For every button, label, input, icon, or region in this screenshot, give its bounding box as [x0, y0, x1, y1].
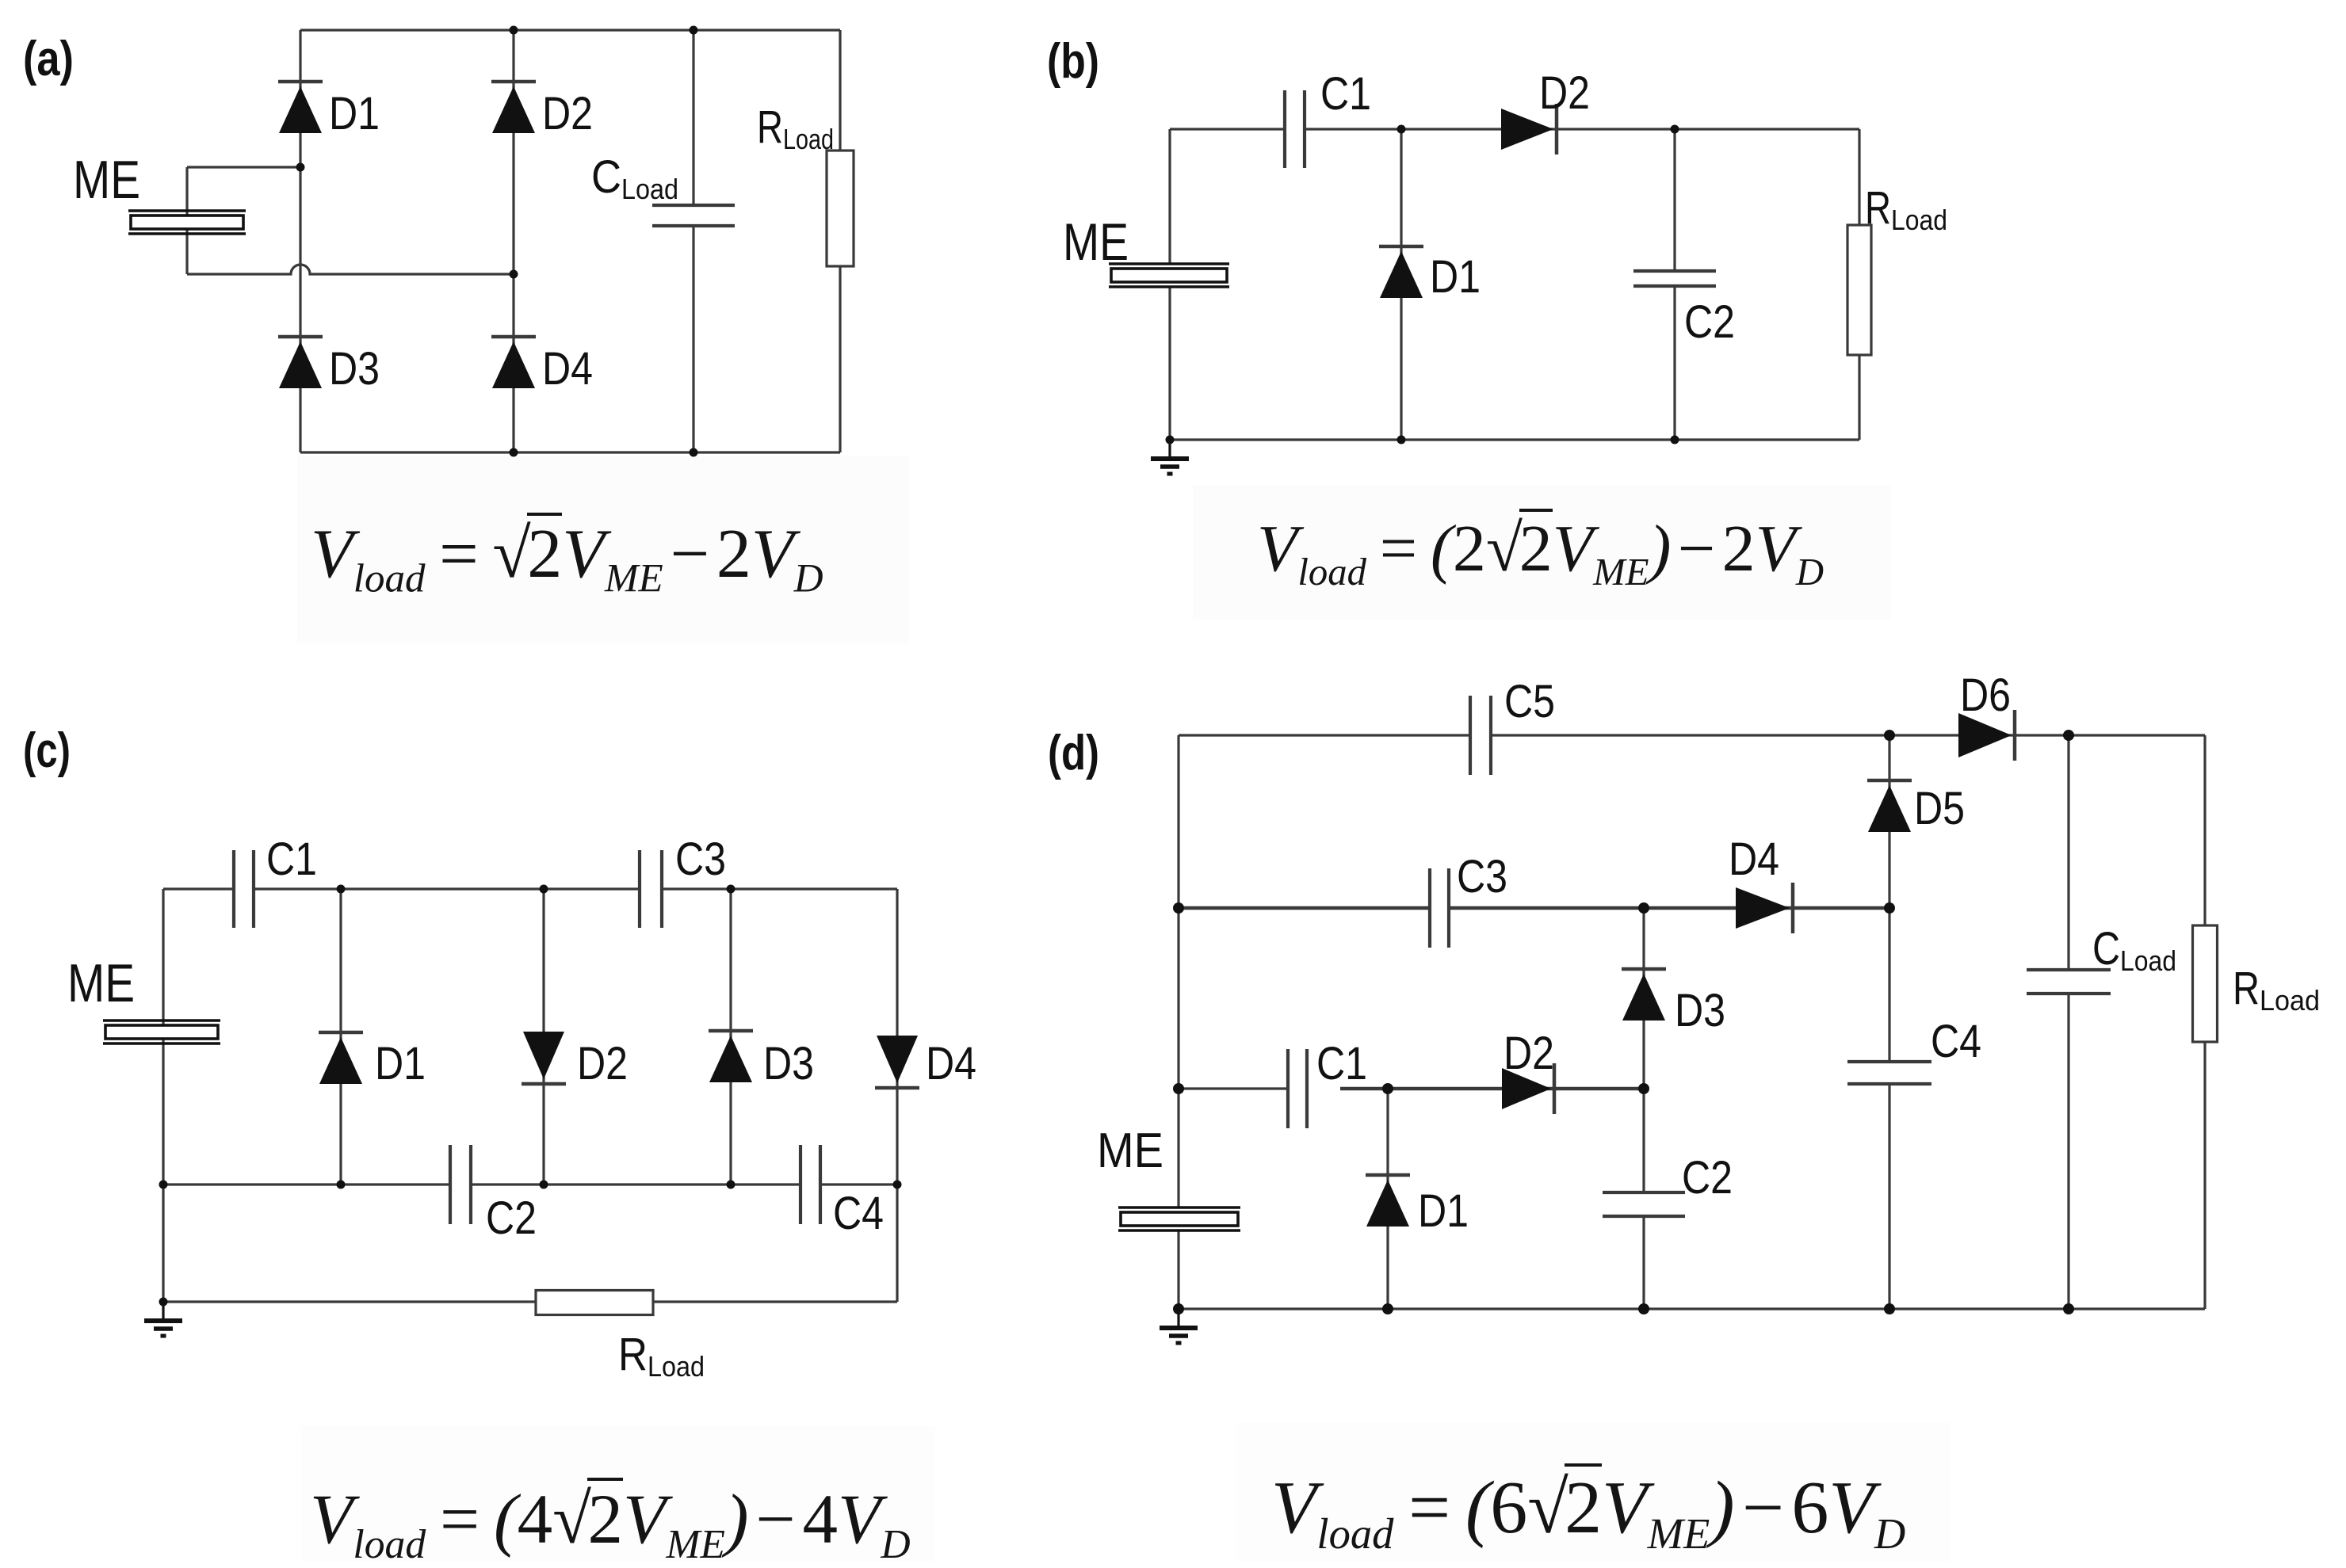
junction dot (1487,1146) (d) — [1173, 902, 1184, 914]
transducer ME (c) — [103, 1021, 220, 1043]
formula panel (c): V_load = (4 sqrt(2) V_ME) - 4 V_D — [310, 1479, 911, 1568]
panel label (b) — [1047, 34, 1099, 89]
junction dot (379,211) (a) — [296, 163, 305, 172]
svg-text:ME: ME — [1063, 212, 1129, 271]
junction dot (648,346) (a) — [510, 270, 518, 279]
svg-text:D3: D3 — [763, 1038, 814, 1089]
svg-text:D2: D2 — [1504, 1028, 1554, 1079]
junction dot (2384,1652) (d) — [1884, 1303, 1895, 1314]
junction dot (2384,1146) (d) — [1884, 902, 1895, 914]
wire C_Load branch bottom (d) — [2067, 994, 2069, 1309]
label R_Load (a) — [757, 101, 834, 155]
wire R_Load branch top (d) — [2203, 735, 2206, 925]
wire mid rail seg3 (c) — [820, 1183, 897, 1185]
formula panel (b): V_load = (2 sqrt(2) V_ME) - 2 V_D — [1257, 510, 1824, 594]
junction dot (2610,928) (d) — [2063, 730, 2074, 741]
transducer ME (a) — [128, 211, 246, 234]
junction dot (430,1122) (c) — [337, 885, 346, 894]
label D5 (d) — [1914, 783, 1965, 834]
label R_Load (b) — [1865, 182, 1947, 236]
wire ME top bracket (a) — [187, 166, 300, 168]
svg-text:C2: C2 — [1684, 296, 1735, 348]
wire D3 branch (d) — [1642, 908, 1645, 1089]
label D2 (a) — [542, 88, 593, 139]
junction dot (1132,1495) (c) — [893, 1181, 902, 1189]
diode D4 (c) — [875, 1036, 919, 1088]
light background box behind formula (a) — [297, 456, 909, 643]
label C3 (c) — [675, 834, 726, 885]
label D1 (d) — [1418, 1185, 1469, 1237]
wire C1 rail seg2 (d) — [1340, 1087, 1644, 1090]
svg-text:C2: C2 — [1682, 1152, 1733, 1204]
wire D2-D4 branch (a) — [512, 30, 514, 452]
svg-text:D6: D6 — [1960, 670, 2011, 721]
wire C2 branch top (b) — [1673, 129, 1675, 271]
transducer ME (b) — [1109, 264, 1229, 287]
junction dot (2074,1374) (d) — [1638, 1083, 1649, 1094]
label D2 (b) — [1539, 67, 1590, 119]
ground (c) — [144, 1302, 182, 1336]
wire right branch (c) — [896, 889, 898, 1302]
svg-text:ME: ME — [67, 953, 135, 1013]
junction dot (875,571) (a) — [690, 448, 698, 457]
svg-text:CLoad: CLoad — [591, 151, 678, 205]
junction dot (1487,1374) (d) — [1173, 1083, 1184, 1094]
wire bottom rail (d) — [1179, 1307, 2205, 1310]
label D2 (c) — [577, 1038, 628, 1089]
svg-text:D2: D2 — [542, 88, 593, 139]
label ME (d) — [1097, 1124, 1163, 1178]
resistor R_Load (a) — [827, 151, 854, 266]
capacitor C_Load (a) — [652, 205, 735, 226]
junction dot (648,571) (a) — [510, 448, 518, 457]
label C_Load (a) — [591, 151, 678, 205]
diode D2 (a) — [491, 82, 536, 133]
wire R_Load branch top (a) — [839, 30, 841, 151]
svg-text:(b): (b) — [1047, 34, 1099, 89]
wire D2 branch (c) — [542, 889, 544, 1185]
wire C2 branch bottom (d) — [1642, 1216, 1645, 1309]
label D4 (d) — [1729, 834, 1779, 885]
junction dot (2074,1146) (d) — [1638, 902, 1649, 914]
wire left diode branch (a) — [299, 30, 301, 452]
svg-text:ME: ME — [1097, 1124, 1163, 1178]
capacitor C1 (d) — [1288, 1049, 1307, 1128]
label R_Load (c) — [618, 1329, 705, 1383]
label D1 (c) — [375, 1038, 426, 1089]
capacitor C1 (c) — [234, 850, 254, 928]
svg-text:D5: D5 — [1914, 783, 1965, 834]
wire ME bottom bracket with hop-over (a) — [187, 265, 514, 274]
wire bottom rail right (c) — [653, 1300, 897, 1303]
capacitor C5 (d) — [1470, 696, 1491, 775]
wire top rail (a) — [300, 29, 840, 31]
junction dot (1768,163) (b) — [1397, 125, 1406, 134]
junction dot (686,1495) (c) — [540, 1181, 548, 1189]
diode D5 (d) — [1867, 780, 1912, 832]
wire top rail seg2 (d) — [1491, 734, 2205, 736]
wire bottom rail (a) — [300, 451, 840, 453]
resistor R_Load (d) — [2193, 925, 2218, 1042]
label D1 (a) — [329, 88, 380, 139]
panel label (d) — [1048, 726, 1099, 780]
wire D1 branch (d) — [1386, 1089, 1389, 1309]
junction dot (1751,1374) (d) — [1382, 1083, 1393, 1094]
diode D1 (c) — [319, 1032, 363, 1084]
junction dot (206,1643) (c) — [159, 1298, 168, 1307]
wire C_Load branch bottom (a) — [692, 226, 694, 452]
diode D4 (a) — [491, 337, 536, 388]
label C4 (d) — [1931, 1016, 1981, 1067]
svg-text:D4: D4 — [926, 1038, 976, 1089]
svg-text:RLoad: RLoad — [1865, 182, 1947, 236]
junction dot (648,38) (a) — [510, 26, 518, 35]
wire mid rail seg2 (c) — [471, 1183, 800, 1185]
wire R_Load branch bottom (a) — [839, 266, 841, 452]
svg-text:C3: C3 — [675, 834, 726, 885]
capacitor C2 (d) — [1603, 1192, 1685, 1216]
svg-text:C5: C5 — [1504, 676, 1555, 727]
wire left branch upper (d) — [1177, 735, 1179, 1207]
wire D3 branch (c) — [729, 889, 732, 1185]
wire top rail mid (b) — [1305, 128, 1859, 130]
wire D5-C4 branch lower (d) — [1888, 1084, 1890, 1309]
transducer ME (d) — [1118, 1207, 1240, 1230]
wire D5-C4 branch upper (d) — [1888, 735, 1890, 1062]
light background box behind formula (c) — [301, 1426, 935, 1562]
wire C2 branch bottom (b) — [1673, 286, 1675, 440]
wire C1 rail seg1 (d) — [1179, 1087, 1288, 1089]
light background box behind formula (b) — [1193, 485, 1890, 620]
wire bottom rail (b) — [1170, 438, 1859, 441]
wire ME bracket vertical (a) — [185, 167, 188, 274]
ground (d) — [1160, 1309, 1198, 1343]
svg-text:D3: D3 — [329, 343, 380, 395]
wire left branch lower (d) — [1177, 1230, 1179, 1309]
wire C2 branch top (d) — [1642, 1089, 1645, 1192]
junction dot (686,1122) (c) — [540, 885, 548, 894]
light background box behind formula (d) — [1236, 1422, 1950, 1562]
svg-text:RLoad: RLoad — [757, 101, 834, 155]
svg-text:(d): (d) — [1048, 726, 1099, 780]
label C3 (d) — [1457, 851, 1507, 902]
label D3 (a) — [329, 343, 380, 395]
svg-text:RLoad: RLoad — [2233, 963, 2320, 1017]
wire top rail seg3 (c) — [662, 887, 897, 890]
label C5 (d) — [1504, 676, 1555, 727]
junction dot (1768,555) (b) — [1397, 436, 1406, 444]
svg-text:(a): (a) — [23, 32, 74, 86]
label ME (b) — [1063, 212, 1129, 271]
label R_Load (d) — [2233, 963, 2320, 1017]
label C2 (c) — [486, 1192, 537, 1244]
wire top rail seg1 (c) — [163, 887, 234, 890]
svg-text:D1: D1 — [375, 1038, 426, 1089]
diode D2 (c) — [522, 1032, 566, 1084]
junction dot (206,1495) (c) — [159, 1181, 168, 1189]
capacitor C3 (c) — [640, 850, 662, 928]
label C4 (c) — [833, 1188, 884, 1239]
panel label (c) — [23, 723, 71, 778]
svg-text:D3: D3 — [1675, 985, 1725, 1036]
svg-text:RLoad: RLoad — [618, 1329, 705, 1383]
wire R_Load branch bottom (d) — [2203, 1042, 2206, 1309]
label D3 (d) — [1675, 985, 1725, 1036]
diode D2 (b) — [1501, 104, 1557, 155]
label C2 (d) — [1682, 1152, 1733, 1204]
svg-text:D1: D1 — [1418, 1185, 1469, 1237]
junction dot (922,1122) (c) — [727, 885, 736, 894]
diode D6 (d) — [1958, 710, 2015, 761]
svg-text:C1: C1 — [1316, 1038, 1367, 1089]
label C_Load (d) — [2092, 923, 2176, 977]
diode D1 (b) — [1379, 246, 1423, 298]
svg-text:C4: C4 — [833, 1188, 884, 1239]
label C1 (b) — [1320, 68, 1371, 120]
junction dot (875,38) (a) — [690, 26, 698, 35]
ground (b) — [1151, 440, 1189, 474]
wire left branch (c) — [162, 889, 164, 1302]
label D2 (d) — [1504, 1028, 1554, 1079]
wire top rail left (b) — [1170, 128, 1285, 130]
svg-text:D1: D1 — [1430, 251, 1481, 303]
resistor R_Load (c) — [536, 1291, 653, 1315]
wire D1 branch (b) — [1400, 129, 1402, 440]
junction dot (922,1495) (c) — [727, 1181, 736, 1189]
formula panel (a): V_load = sqrt(2) V_ME - 2 V_D — [311, 514, 823, 602]
label D6 (d) — [1960, 670, 2011, 721]
wire D1 branch (c) — [339, 889, 342, 1185]
formula panel (d): V_load = (6 sqrt(2) V_ME) - 6 V_D — [1271, 1465, 1905, 1558]
capacitor C2 (b) — [1633, 271, 1716, 286]
svg-text:C1: C1 — [1320, 68, 1371, 120]
junction dot (2113,555) (b) — [1671, 436, 1679, 444]
diode D3 (c) — [709, 1031, 753, 1082]
svg-text:D1: D1 — [329, 88, 380, 139]
capacitor C2 (c) — [450, 1145, 471, 1224]
wire mid rail seg1 (c) — [163, 1183, 450, 1185]
junction dot (1751,1652) (d) — [1382, 1303, 1393, 1314]
wire top rail seg1 (d) — [1179, 734, 1470, 736]
svg-text:C4: C4 — [1931, 1016, 1981, 1067]
diode D4 (d) — [1736, 883, 1793, 933]
wire ME branch lower (b) — [1168, 286, 1171, 440]
svg-text:C1: C1 — [266, 834, 317, 885]
wire ME branch upper (b) — [1168, 129, 1171, 264]
diode D2 (d) — [1502, 1063, 1554, 1114]
label C1 (c) — [266, 834, 317, 885]
label ME (c) — [67, 953, 135, 1013]
wire mid rail seg1 (d) — [1179, 906, 1430, 910]
wire bottom rail left (c) — [163, 1300, 536, 1303]
capacitor C3 (d) — [1430, 868, 1449, 948]
capacitor C1 (b) — [1285, 90, 1305, 168]
label D4 (c) — [926, 1038, 976, 1089]
label D1 (b) — [1430, 251, 1481, 303]
junction dot (1487,1652) (d) — [1173, 1303, 1184, 1314]
svg-text:C2: C2 — [486, 1192, 537, 1244]
resistor R_Load (b) — [1847, 225, 1871, 355]
wire C_Load branch top (a) — [692, 30, 694, 205]
panel label (a) — [23, 32, 74, 86]
svg-text:D4: D4 — [1729, 834, 1779, 885]
capacitor C4 (c) — [800, 1145, 820, 1224]
wire mid rail seg2 (d) — [1449, 906, 1889, 910]
junction dot (2113,163) (b) — [1671, 125, 1679, 134]
diode D3 (d) — [1622, 969, 1666, 1021]
junction dot (2074,1652) (d) — [1638, 1303, 1649, 1314]
svg-text:CLoad: CLoad — [2092, 923, 2176, 977]
wire R_Load branch top (b) — [1858, 129, 1860, 225]
label D3 (c) — [763, 1038, 814, 1089]
junction dot (1476,555) (b) — [1166, 436, 1175, 444]
label C1 (d) — [1316, 1038, 1367, 1089]
label ME (a) — [73, 150, 140, 210]
wire C_Load branch top (d) — [2067, 735, 2069, 970]
diode D1 (d) — [1366, 1175, 1410, 1227]
junction dot (430,1495) (c) — [337, 1181, 346, 1189]
diode D3 (a) — [278, 337, 323, 388]
capacitor C_Load (d) — [2027, 970, 2111, 994]
junction dot (2610,1652) (d) — [2063, 1303, 2074, 1314]
svg-text:ME: ME — [73, 150, 140, 210]
svg-text:C3: C3 — [1457, 851, 1507, 902]
label D4 (a) — [542, 343, 593, 395]
svg-text:D2: D2 — [1539, 67, 1590, 119]
svg-text:D2: D2 — [577, 1038, 628, 1089]
svg-text:D4: D4 — [542, 343, 593, 395]
diode D1 (a) — [278, 82, 323, 133]
label C2 (b) — [1684, 296, 1735, 348]
svg-text:(c): (c) — [23, 723, 71, 778]
junction dot (2384,928) (d) — [1884, 730, 1895, 741]
capacitor C4 (d) — [1847, 1062, 1931, 1084]
wire top rail seg2 (c) — [254, 887, 640, 890]
wire R_Load branch bottom (b) — [1858, 355, 1860, 440]
